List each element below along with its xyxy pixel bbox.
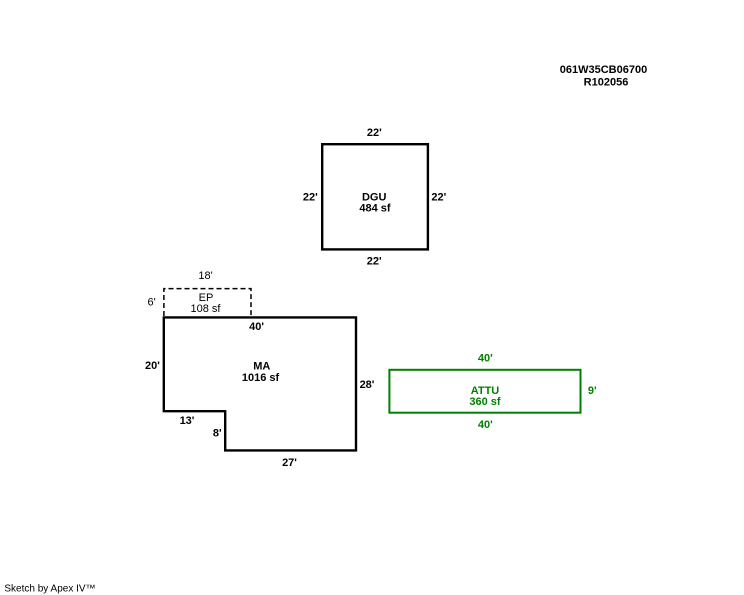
svg-text:360 sf: 360 sf [469, 396, 501, 408]
svg-text:27': 27' [282, 457, 297, 469]
svg-text:Sketch by Apex IV™: Sketch by Apex IV™ [4, 583, 95, 594]
svg-text:484 sf: 484 sf [359, 203, 391, 215]
svg-text:R102056: R102056 [584, 77, 629, 89]
area outline EP (enclosed porch, dashed) [164, 289, 251, 316]
svg-text:MA: MA [253, 360, 270, 372]
svg-text:40': 40' [249, 321, 264, 333]
svg-text:22': 22' [367, 256, 382, 268]
area outline DGU (detached garage unit) [322, 144, 428, 249]
svg-text:18': 18' [198, 270, 212, 282]
svg-text:108 sf: 108 sf [191, 303, 222, 315]
svg-text:28': 28' [360, 379, 375, 391]
svg-text:13': 13' [180, 415, 195, 427]
svg-text:061W35CB06700: 061W35CB06700 [560, 64, 647, 76]
svg-text:20': 20' [145, 360, 160, 372]
svg-text:9': 9' [588, 385, 597, 397]
svg-text:8': 8' [213, 428, 222, 440]
area outline MA (main area polygon) [164, 317, 356, 450]
area outline ATTU (attached unit, green) [389, 370, 580, 413]
svg-text:22': 22' [303, 191, 318, 203]
svg-text:6': 6' [147, 297, 155, 309]
svg-text:22': 22' [431, 191, 446, 203]
svg-text:1016 sf: 1016 sf [242, 372, 280, 384]
svg-text:40': 40' [478, 419, 493, 431]
svg-text:40': 40' [478, 353, 493, 365]
svg-text:22': 22' [367, 127, 382, 139]
